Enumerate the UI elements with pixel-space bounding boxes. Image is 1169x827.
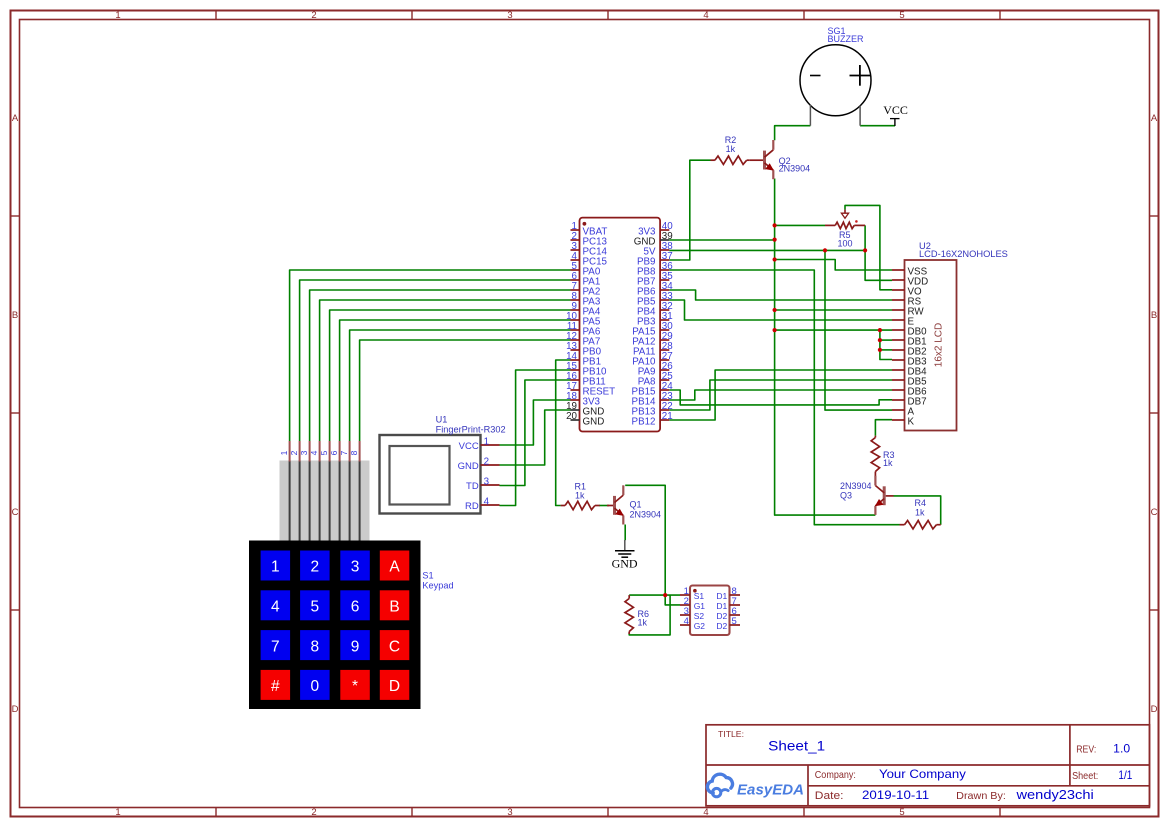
- LCD U2 LCD-16X2NOHOLES: [892, 241, 1008, 431]
- svg-text:6: 6: [351, 599, 360, 616]
- svg-text:G2: G2: [694, 621, 706, 631]
- svg-text:Q3: Q3: [840, 491, 852, 501]
- svg-text:LCD-16X2NOHOLES: LCD-16X2NOHOLES: [919, 249, 1008, 259]
- svg-text:Keypad: Keypad: [422, 581, 453, 591]
- svg-text:5: 5: [310, 599, 319, 616]
- svg-text:U1: U1: [436, 415, 448, 425]
- svg-text:1.0: 1.0: [1113, 742, 1130, 756]
- wire to LCD DB1: [880, 339, 892, 341]
- svg-text:2: 2: [311, 10, 316, 21]
- svg-text:3: 3: [507, 807, 512, 818]
- wire 5V to LCD A: [825, 250, 892, 410]
- svg-text:7: 7: [339, 450, 349, 455]
- svg-text:K: K: [908, 416, 915, 427]
- svg-text:D2: D2: [716, 621, 727, 631]
- junction 5V net at R5 right: [863, 248, 867, 252]
- wire PB13 pin22 to LCD DB5: [669, 380, 892, 410]
- dual MOSFET IC (S1/G1/S2/G2 D1/D1/D2/D2): [680, 586, 740, 636]
- svg-text:TITLE:: TITLE:: [718, 729, 744, 739]
- junction DB0 tie: [878, 328, 882, 332]
- svg-text:6: 6: [329, 450, 339, 455]
- svg-text:1k: 1k: [575, 491, 585, 501]
- svg-text:2N3904: 2N3904: [630, 510, 662, 520]
- svg-text:0: 0: [310, 678, 319, 695]
- junction GND net 2: [773, 238, 777, 242]
- svg-text:GND: GND: [458, 461, 479, 472]
- svg-text:BUZZER: BUZZER: [828, 34, 865, 44]
- svg-text:R4: R4: [915, 498, 927, 508]
- wire R4 to Q3 base: [894, 496, 941, 525]
- junction 5V net at A-wire: [823, 248, 827, 252]
- svg-text:D1: D1: [716, 601, 727, 611]
- svg-text:100: 100: [838, 238, 853, 248]
- wire GND net: Q2 emitter down to Q3 emitter: [775, 179, 876, 516]
- resistor R1 1k: [561, 482, 613, 510]
- wire PB14 pin23 to LCD DB6: [669, 390, 892, 400]
- svg-text:1k: 1k: [915, 508, 925, 518]
- wire PB12 pin21 to LCD DB4: [669, 370, 892, 420]
- svg-text:Date:: Date:: [815, 790, 844, 802]
- svg-text:EasyEDA: EasyEDA: [737, 782, 804, 799]
- wire 5V pin38 to R5 right: [669, 249, 865, 251]
- resistor R2 1k: [711, 135, 750, 164]
- wire LCD K to R3: [875, 420, 892, 436]
- VCC power symbol: [883, 103, 908, 126]
- svg-text:D1: D1: [716, 591, 727, 601]
- wire R6 bottom loop: [629, 595, 670, 635]
- wire Q2 collector to buzzer: [775, 126, 811, 141]
- wire keypad ribbon pin 8 to MCU PA7: [360, 340, 571, 441]
- svg-text:3: 3: [507, 10, 512, 21]
- svg-text:2: 2: [484, 457, 489, 468]
- transistor Q1 2N3904: [613, 485, 661, 524]
- wire buzzer to VCC: [860, 125, 895, 127]
- wire PB8 pin36 to R4: [669, 270, 899, 525]
- svg-text:B: B: [12, 310, 18, 321]
- svg-text:Your Company: Your Company: [879, 767, 966, 781]
- svg-text:B: B: [389, 599, 399, 616]
- svg-text:5: 5: [899, 10, 904, 21]
- wire GND net branch to LCD VSS: [775, 260, 892, 271]
- svg-text:PB12: PB12: [632, 416, 656, 427]
- svg-text:1: 1: [279, 450, 289, 455]
- transistor Q3 2N3904 (mirrored): [840, 476, 894, 515]
- svg-text:1k: 1k: [638, 618, 648, 628]
- svg-text:FingerPrint-R302: FingerPrint-R302: [436, 424, 506, 434]
- svg-text:2N3904: 2N3904: [840, 481, 872, 491]
- wire PB1 pin14 to R1: [556, 360, 571, 506]
- resistor R3 1k: [871, 436, 894, 476]
- wire keypad ribbon pin 5 to MCU PA4: [330, 310, 571, 441]
- svg-text:RD: RD: [465, 501, 479, 512]
- svg-text:GND: GND: [612, 557, 638, 571]
- wire keypad ribbon pin 6 to MCU PA5: [340, 320, 571, 441]
- keypad S1: [249, 441, 454, 709]
- svg-text:5: 5: [319, 450, 329, 455]
- title block: [706, 725, 1150, 806]
- svg-text:2: 2: [311, 807, 316, 818]
- wire GND net to LCD RW: [775, 309, 892, 311]
- svg-text:1k: 1k: [883, 458, 893, 468]
- svg-text:C: C: [12, 507, 19, 518]
- svg-text:VCC: VCC: [459, 441, 479, 452]
- svg-text:S1: S1: [422, 570, 433, 580]
- wire PB9 pin37 to R2: [669, 160, 710, 260]
- svg-text:3: 3: [299, 450, 309, 455]
- svg-text:21: 21: [662, 411, 673, 422]
- svg-text:1: 1: [115, 807, 120, 818]
- svg-text:*: *: [352, 678, 358, 695]
- wire PB6 pin34 to LCD RS: [669, 290, 892, 300]
- svg-text:4: 4: [271, 599, 280, 616]
- svg-text:8: 8: [310, 638, 319, 655]
- junction DB1 tie: [878, 338, 882, 342]
- svg-text:3: 3: [484, 477, 490, 488]
- junction GND net 3: [773, 257, 777, 261]
- svg-text:D: D: [12, 704, 19, 715]
- svg-text:TD: TD: [466, 481, 479, 492]
- wire PB11 pin16 to U1 TD: [500, 380, 571, 486]
- EasyEDA logo: [707, 774, 804, 798]
- svg-text:5: 5: [899, 807, 904, 818]
- svg-text:A: A: [1151, 113, 1158, 124]
- svg-text:D: D: [389, 678, 400, 695]
- wire keypad ribbon pin 7 to MCU PA6: [350, 330, 571, 441]
- svg-text:2019-10-11: 2019-10-11: [862, 788, 929, 802]
- junction GND net 4: [773, 308, 777, 312]
- MCU IC 40-pin (VBAT/PC13..PB12): [566, 218, 673, 432]
- junction Q1 collector node: [663, 593, 667, 597]
- wire R6 top to switch S1 pin1: [629, 594, 680, 596]
- svg-text:9: 9: [351, 638, 360, 655]
- svg-text:4: 4: [309, 450, 319, 455]
- junction GND net 5: [773, 328, 777, 332]
- svg-text:4: 4: [484, 497, 490, 508]
- svg-text:4: 4: [684, 616, 689, 627]
- ground symbol GND: [612, 540, 638, 571]
- svg-text:Sheet_1: Sheet_1: [768, 737, 825, 753]
- wire R5 wiper to LCD VO: [845, 205, 892, 289]
- svg-text:8: 8: [349, 450, 359, 455]
- svg-text:S1: S1: [694, 591, 705, 601]
- svg-text:A: A: [389, 559, 400, 576]
- svg-text:1: 1: [115, 10, 120, 21]
- resistor R4 1k: [900, 498, 941, 529]
- svg-text:Company:: Company:: [815, 770, 856, 781]
- wire GND net to LCD DB0: [775, 329, 892, 331]
- svg-text:4: 4: [703, 10, 708, 21]
- svg-text:2: 2: [310, 559, 319, 576]
- svg-text:3: 3: [351, 559, 360, 576]
- junction GND net 1: [773, 223, 777, 227]
- wire Q1 emitter to ground: [624, 525, 626, 541]
- svg-text:C: C: [389, 638, 400, 655]
- svg-text:D2: D2: [716, 611, 727, 621]
- wire keypad ribbon pin 4 to MCU PA3: [320, 300, 571, 441]
- svg-text:C: C: [1151, 507, 1158, 518]
- wire GND pin19 to U1 GND: [500, 410, 571, 465]
- svg-text:REV:: REV:: [1076, 745, 1096, 756]
- svg-text:Q1: Q1: [630, 500, 642, 510]
- svg-text:2: 2: [289, 450, 299, 455]
- fingerprint module U1 FingerPrint-R302: [380, 415, 506, 514]
- svg-text:1k: 1k: [726, 144, 736, 154]
- svg-text:D: D: [1151, 704, 1158, 715]
- wire R1 to Q1 base: [599, 505, 609, 507]
- svg-text:1: 1: [484, 437, 489, 448]
- wire Q1 collector to switch pins: [625, 485, 680, 605]
- svg-text:Drawn By:: Drawn By:: [956, 791, 1006, 802]
- svg-text:#: #: [271, 678, 280, 695]
- junction DB2 tie: [878, 348, 882, 352]
- wire keypad ribbon pin 2 to MCU PA1: [300, 280, 571, 441]
- transistor Q2 2N3904: [750, 140, 810, 179]
- buzzer SG1: [800, 26, 871, 126]
- svg-text:1/1: 1/1: [1118, 768, 1132, 782]
- svg-text:wendy23chi: wendy23chi: [1015, 788, 1093, 802]
- svg-text:GND: GND: [583, 416, 605, 427]
- wire GND pin39 to GND net: [669, 239, 774, 241]
- wire keypad ribbon pin 3 to MCU PA2: [310, 290, 571, 441]
- wire 3V3 pin18 to U1 VCC: [500, 400, 571, 445]
- svg-text:16x2 LCD: 16x2 LCD: [934, 323, 945, 367]
- wire DB0-DB3 tie vertical: [880, 330, 892, 359]
- wire GND net branch to R5 left: [775, 224, 825, 226]
- svg-text:S2: S2: [694, 611, 705, 621]
- wire R5 right to LCD VDD: [865, 225, 892, 280]
- svg-text:5: 5: [732, 616, 737, 627]
- wire keypad ribbon pin 1 to MCU PA0: [290, 270, 571, 441]
- svg-text:1: 1: [271, 559, 280, 576]
- svg-text:Sheet:: Sheet:: [1072, 771, 1098, 782]
- svg-text:7: 7: [271, 638, 280, 655]
- svg-text:VCC: VCC: [883, 103, 908, 117]
- svg-text:20: 20: [566, 411, 577, 422]
- svg-text:B: B: [1151, 310, 1157, 321]
- wire to LCD DB2: [880, 349, 892, 351]
- resistor R6 1k: [625, 595, 649, 634]
- svg-text:4: 4: [703, 807, 708, 818]
- svg-text:2N3904: 2N3904: [779, 164, 811, 174]
- potentiometer R5 100: [825, 210, 865, 249]
- svg-text:A: A: [12, 113, 19, 124]
- wire PB10 pin15 to U1 RD: [500, 370, 571, 506]
- wire PB5 pin33 to LCD E: [669, 300, 892, 320]
- wire PB15 pin24 to LCD DB7: [669, 390, 892, 405]
- svg-text:G1: G1: [694, 601, 706, 611]
